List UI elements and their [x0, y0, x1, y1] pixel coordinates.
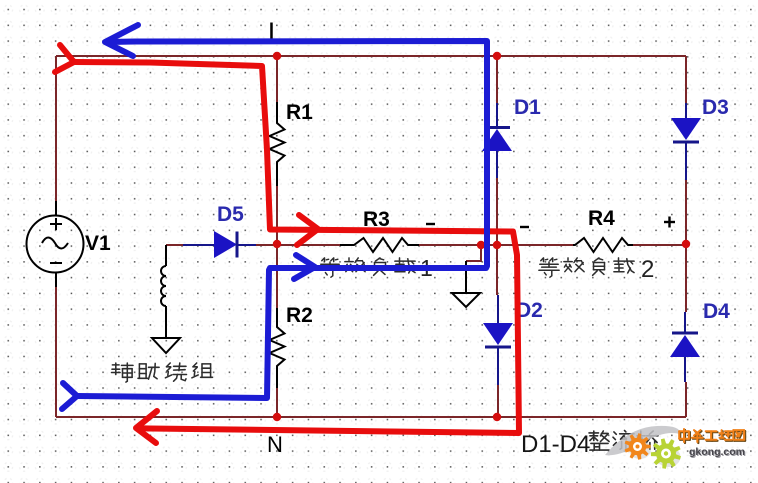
diode D3 [685, 103, 687, 118]
wire: D2 branch below [497, 385, 499, 417]
wire: R1 branch top [276, 56, 278, 102]
svg-text:gkong.com: gkong.com [689, 446, 745, 458]
wire: R1 branch bottom [276, 186, 278, 244]
svg-text:R4: R4 [588, 207, 615, 230]
wire: center ground stub [466, 245, 481, 261]
wire: center rail through R3 R4 [277, 244, 340, 246]
blue current path start marker [62, 383, 77, 409]
wire: D5 cathode to node [256, 244, 277, 246]
svg-text:R1: R1 [286, 101, 313, 124]
diode D4 [684, 312, 686, 333]
node junction (497,245) [493, 241, 501, 249]
svg-text:V1: V1 [85, 232, 111, 255]
watermark text zhonghua gongkong wang [679, 432, 681, 440]
node junction (277,56) [273, 52, 281, 60]
wire: D2 branch above [496, 245, 498, 295]
polarity plus (load2 right) [664, 221, 675, 223]
watermark gear lime [657, 447, 681, 467]
svg-text:D5: D5 [217, 203, 244, 226]
svg-text:N: N [267, 432, 283, 457]
node junction (277,244) [273, 240, 281, 248]
text: deng xiao fu zai 1 (equivalent load 1) [322, 258, 325, 261]
wire: left branch from top corner to V1 [55, 56, 57, 201]
resistor R3 [340, 238, 419, 252]
red current path main loop [74, 62, 519, 433]
svg-text:D1: D1 [514, 96, 541, 119]
voltage source V1 [55, 201, 57, 216]
auxiliary winding coil [165, 245, 167, 266]
resistor R1 [270, 102, 285, 186]
red mid arrowhead [297, 215, 318, 245]
node junction (497,56) [493, 52, 501, 60]
polarity minus (load1 right) [426, 223, 435, 225]
text: fu zhu rao zu (auxiliary winding) [112, 364, 119, 366]
wire: D1 branch below [496, 178, 498, 245]
resistor R2 [270, 308, 285, 388]
wire: right branch below D4 [685, 382, 687, 417]
red current path start marker [55, 45, 74, 72]
svg-text:2: 2 [641, 256, 654, 283]
ground (aux winding) [152, 338, 180, 353]
wire: aux winding to D5 [166, 244, 183, 246]
svg-text:D1-D4: D1-D4 [521, 431, 590, 458]
diode D5 [183, 244, 215, 246]
blue mid arrowhead [294, 255, 315, 279]
diode D1 [496, 103, 498, 128]
svg-text:D4: D4 [703, 300, 730, 323]
node junction (497,417) [493, 413, 501, 421]
wire: R2 branch top [276, 244, 278, 308]
svg-text:R2: R2 [286, 304, 313, 327]
node junction (277,417) [273, 413, 281, 421]
wire: bottom rail N [56, 416, 686, 418]
node junction (686,244) [682, 240, 690, 248]
wire: R2 branch bottom [276, 388, 278, 417]
wire: D1 branch above [496, 56, 498, 103]
blue end arrowhead [105, 25, 138, 56]
watermark gear orange [629, 440, 651, 459]
diode D2 [497, 295, 499, 323]
wire: left branch V1 to bottom rail [55, 287, 57, 417]
svg-text:D3: D3 [702, 96, 729, 119]
polarity minus (load2 left) [520, 226, 529, 228]
wire: right branch top (to D3) [685, 56, 687, 103]
node junction (481,245) [477, 241, 485, 249]
resistor R4 [573, 238, 633, 252]
red end arrowhead [136, 411, 157, 443]
wire: right branch D3 to D4 [685, 180, 687, 312]
blue current path main loop [77, 41, 487, 398]
ground (center) [465, 261, 467, 293]
watermark swoosh [605, 426, 680, 455]
wire: top rail L [56, 55, 686, 57]
text: deng xiao fu zai 2 (equivalent load 2) [541, 258, 544, 261]
